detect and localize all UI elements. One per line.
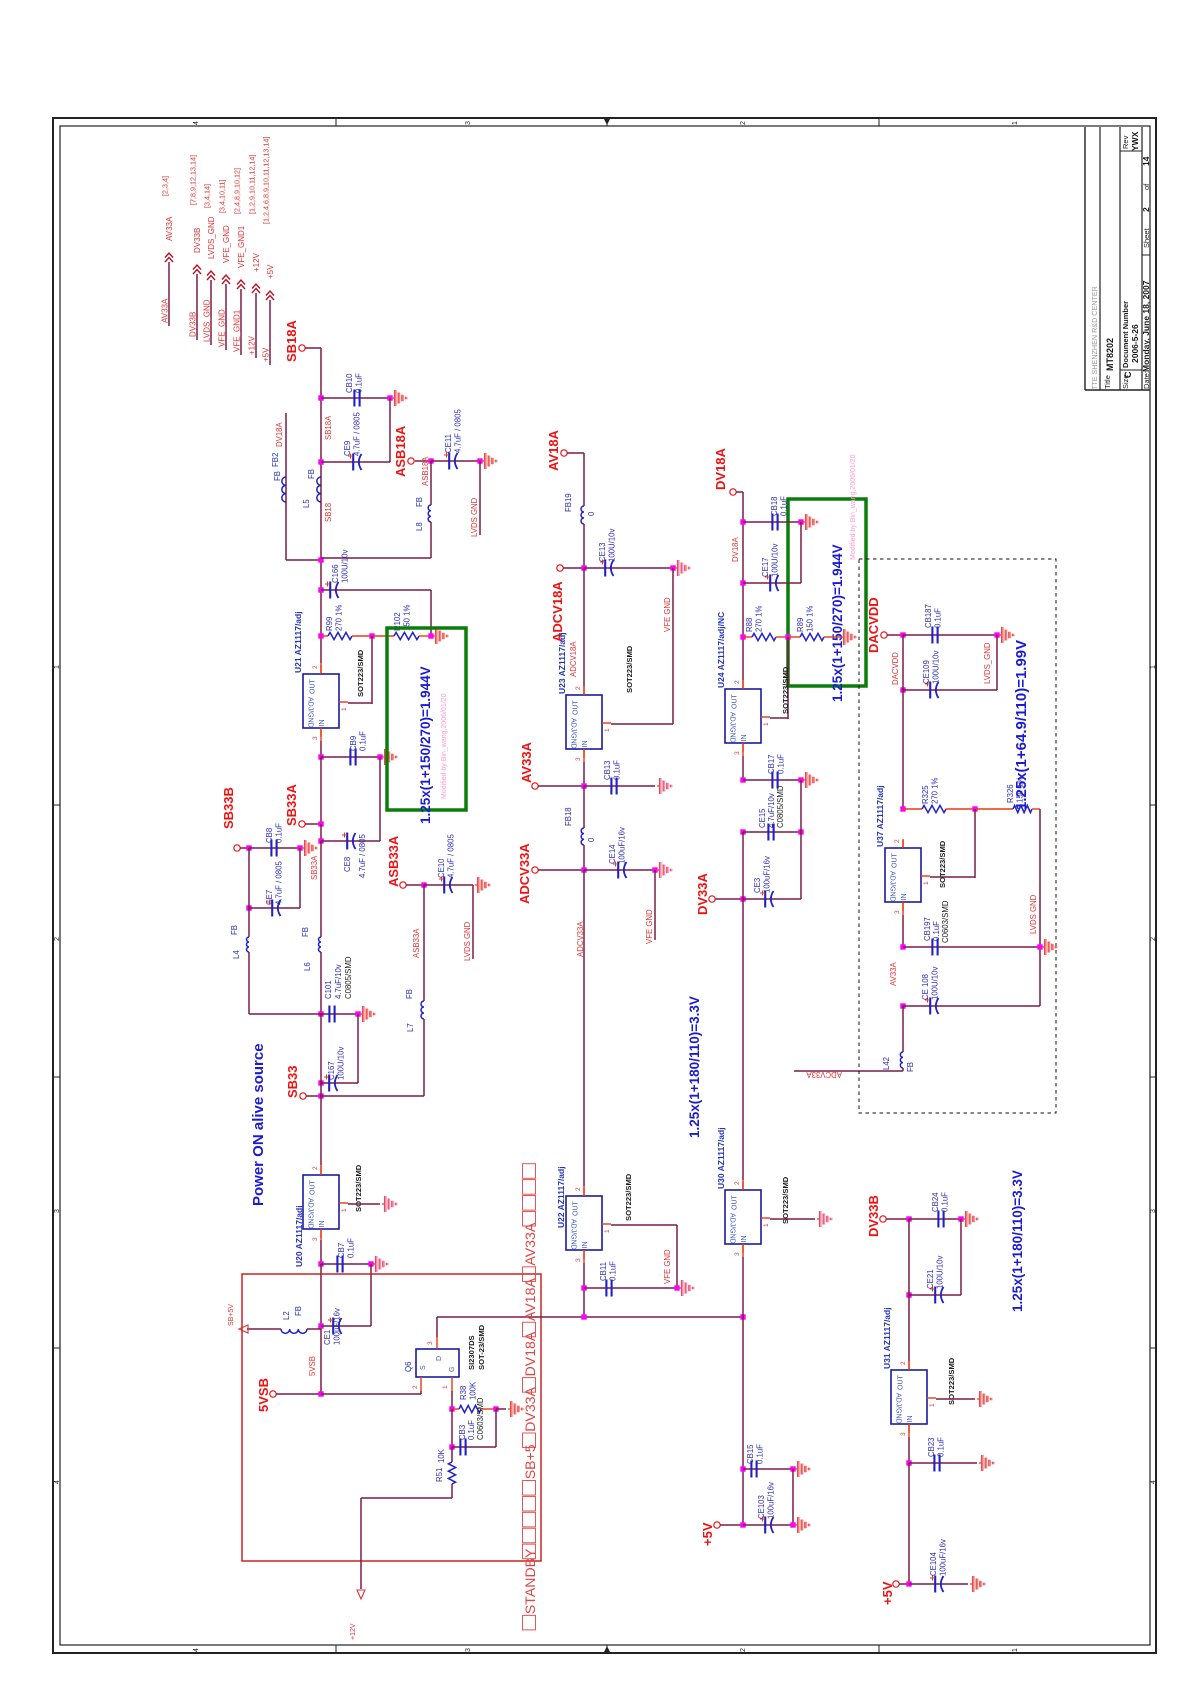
power port SB33B (234, 845, 240, 851)
wire (611, 723, 673, 725)
svg-text:DV18A: DV18A (275, 421, 284, 447)
wire (437, 1316, 743, 1318)
junction (421, 882, 426, 887)
svg-text:4: 4 (193, 121, 200, 125)
power port DV18A (730, 489, 736, 495)
wire (320, 824, 322, 841)
pin 2 OUT of U22 (583, 1187, 585, 1196)
svg-text:3: 3 (900, 1432, 907, 1436)
wire (902, 915, 904, 947)
wire (496, 1408, 506, 1410)
svg-text:TTE SHENZHEN R&D CENTER: TTE SHENZHEN R&D CENTER (1090, 286, 1099, 390)
green highlight box 2 (788, 499, 866, 686)
svg-text:14: 14 (1141, 156, 1151, 166)
wire (415, 460, 431, 462)
junction (900, 687, 905, 692)
capacitor CB23 (933, 1455, 935, 1472)
wire (423, 885, 425, 1001)
svg-text:+5V: +5V (262, 347, 271, 362)
ground (382, 1203, 384, 1205)
wire (321, 1325, 371, 1327)
pin (776, 636, 788, 638)
wire (321, 756, 380, 758)
svg-text:[2,4,8,9,10,12]: [2,4,8,9,10,12] (233, 168, 242, 214)
wire (903, 689, 997, 691)
wire (794, 1070, 903, 1072)
wire (909, 1583, 968, 1585)
wire (249, 1013, 321, 1015)
junction (900, 632, 905, 637)
pin (902, 840, 904, 848)
svg-text:C0603/SMD: C0603/SMD (476, 1397, 485, 1440)
wire (584, 785, 655, 787)
pin (320, 728, 322, 741)
svg-text:SOT223/SMD: SOT223/SMD (625, 645, 634, 693)
junction (740, 580, 745, 585)
wire (583, 568, 585, 686)
wire (743, 1468, 793, 1470)
svg-text:L5: L5 (302, 499, 311, 508)
wire (742, 492, 744, 680)
svg-text:L8: L8 (415, 522, 424, 531)
junction (493, 1406, 498, 1411)
wire (672, 568, 674, 724)
pin (583, 1250, 585, 1263)
ground (382, 756, 384, 758)
resistor R326 (1013, 805, 1032, 812)
svg-text:2: 2 (894, 839, 901, 843)
svg-text:R38: R38 (459, 1386, 468, 1400)
svg-text:2: 2 (740, 121, 747, 125)
svg-text:CB187: CB187 (924, 604, 933, 628)
junction (906, 1292, 911, 1297)
wire (743, 521, 801, 523)
ground (657, 869, 659, 871)
wire (430, 461, 432, 505)
svg-text:1: 1 (763, 722, 770, 726)
junction (798, 829, 803, 834)
wire (420, 1391, 422, 1394)
wire (743, 898, 801, 900)
wire (743, 1524, 793, 1526)
wire (247, 1328, 281, 1330)
wire (583, 870, 585, 1186)
svg-text:FB: FB (415, 497, 424, 507)
wire (305, 347, 321, 349)
svg-text:1.25x(1+180/110)=3.3V: 1.25x(1+180/110)=3.3V (687, 996, 702, 1138)
junction (318, 1011, 323, 1016)
capacitor C101 (328, 1006, 330, 1023)
ground (841, 636, 843, 638)
pin (583, 686, 585, 695)
svg-text:ADJ/GND: ADJ/GND (307, 697, 314, 728)
capacitor CB8 (270, 840, 272, 857)
pin 3 IN of U24 (742, 743, 744, 752)
svg-text:SOT223/SMD: SOT223/SMD (781, 1176, 790, 1224)
junction (355, 1011, 360, 1016)
wire (886, 1218, 909, 1220)
off-page connector +5V (266, 291, 274, 300)
svg-text:SB33B: SB33B (221, 787, 236, 829)
wire (424, 884, 473, 886)
ferrite bead L8 (428, 505, 431, 522)
wire (584, 567, 673, 569)
svg-text:1: 1 (923, 881, 930, 885)
pin (583, 1186, 585, 1196)
pin 1 ADJ/GND of U31 (927, 1397, 936, 1399)
wire (787, 637, 789, 719)
svg-text:1: 1 (604, 1229, 611, 1233)
power arrow SB+5V (239, 1325, 248, 1333)
wire (583, 453, 585, 506)
wire (321, 557, 431, 559)
capacitor CB11 (605, 1280, 607, 1297)
svg-text:CE17: CE17 (761, 557, 770, 577)
svg-text:OUT: OUT (573, 1201, 580, 1217)
resistor R88 (752, 633, 776, 640)
svg-text:3: 3 (575, 1258, 582, 1262)
wire (743, 582, 801, 584)
capacitor CE1 (332, 1318, 334, 1335)
regulator U22 body (566, 1196, 602, 1250)
wire (357, 1014, 359, 1083)
red annotation box around 5VSB circuit (242, 1274, 541, 1561)
svg-text:270 1%: 270 1% (335, 604, 344, 631)
svg-text:[1,2,4,6,8,9,10,11,12,13,14]: [1,2,4,6,8,9,10,11,12,13,14] (262, 137, 271, 224)
svg-text:100K: 100K (469, 1381, 478, 1400)
svg-text:3: 3 (894, 910, 901, 914)
junction (900, 944, 905, 949)
svg-text:4: 4 (193, 1648, 200, 1652)
svg-text:AV33A: AV33A (522, 1222, 538, 1265)
svg-text:VFE_GND: VFE_GND (218, 309, 227, 347)
off-page connector DV33B (193, 265, 201, 274)
svg-text:CB15: CB15 (746, 1444, 755, 1464)
svg-text:CE103: CE103 (757, 1495, 766, 1519)
junction (674, 1285, 679, 1290)
svg-text:SB18A: SB18A (324, 415, 333, 440)
off-page connector AV33A (165, 253, 173, 262)
junction (318, 633, 323, 638)
capacitor CE9 (352, 454, 354, 471)
wire off-page net AV33A (168, 262, 170, 326)
svg-text:DACVDD: DACVDD (866, 597, 881, 653)
wire (800, 832, 802, 899)
ground (803, 521, 805, 523)
svg-text:G: G (449, 1367, 456, 1372)
wire (305, 823, 321, 825)
svg-text:CE8: CE8 (343, 857, 352, 872)
svg-text:DV18A: DV18A (713, 447, 728, 490)
svg-text:3: 3 (1150, 1209, 1157, 1213)
capacitor CE15 (767, 824, 769, 841)
svg-text:VFE GND: VFE GND (645, 909, 654, 944)
junction (581, 1285, 586, 1290)
capacitor CE17 (769, 575, 771, 592)
transistor Q6 body (416, 1349, 459, 1377)
svg-text:100uF/16v: 100uF/16v (618, 827, 627, 864)
junction (740, 1522, 745, 1527)
junction (246, 905, 251, 910)
wire (430, 590, 432, 636)
ferrite bead L6 (319, 937, 321, 952)
wire (451, 1447, 453, 1462)
border zone tick marks top/bottom (335, 118, 337, 126)
junction (740, 777, 745, 782)
pin (975, 808, 1013, 810)
svg-text:SOT223/SMD: SOT223/SMD (938, 840, 947, 888)
wire (930, 876, 975, 878)
ground (679, 1287, 681, 1289)
wire (348, 702, 372, 704)
pin (743, 636, 752, 638)
wire (321, 397, 390, 399)
svg-text:YWX: YWX (1130, 131, 1140, 151)
svg-text:100U/10v: 100U/10v (771, 544, 780, 577)
wire (1039, 809, 1041, 1006)
wire (770, 1218, 815, 1220)
svg-text:C: C (1123, 371, 1133, 378)
svg-text:1.25x(1+150/270)=1.944V: 1.25x(1+150/270)=1.944V (830, 544, 845, 702)
ferrite bead FB2 (282, 477, 286, 502)
power arrow +12V (357, 1590, 365, 1599)
svg-text:OUT: OUT (732, 694, 739, 710)
svg-text:3: 3 (427, 1341, 434, 1345)
wire (908, 1437, 910, 1463)
svg-text:SOT223/SMD: SOT223/SMD (624, 1173, 633, 1221)
svg-text:2: 2 (1150, 937, 1157, 941)
capacitor CE10 (443, 877, 445, 894)
svg-text:FB: FB (307, 469, 316, 479)
svg-text:LVDS GND: LVDS GND (463, 921, 472, 961)
svg-text:CB24: CB24 (931, 1192, 940, 1212)
wire (321, 1013, 358, 1015)
pin 1 ADJ/GND of U24 (761, 716, 770, 718)
junction (581, 867, 586, 872)
wire (423, 1019, 425, 1096)
ground (373, 1263, 375, 1265)
svg-text:2: 2 (54, 937, 61, 941)
svg-text:VFE GND: VFE GND (663, 597, 672, 632)
capacitor CE11 (448, 453, 450, 470)
ground (302, 847, 304, 849)
svg-text:0.1uF: 0.1uF (275, 823, 284, 843)
svg-text:CB7: CB7 (337, 1243, 346, 1258)
power port ADCV33A (532, 867, 538, 873)
junction (581, 1314, 586, 1319)
power port DACVDD (881, 632, 887, 638)
wire (451, 1484, 453, 1498)
junction (369, 633, 374, 638)
wire (320, 1264, 322, 1394)
svg-text:Rev: Rev (1121, 135, 1130, 149)
resistor R38 (459, 1405, 481, 1412)
svg-text:IN: IN (901, 894, 908, 901)
svg-text:DV33B: DV33B (866, 1195, 881, 1237)
resistor R102 (394, 632, 419, 639)
svg-text:DACVDD: DACVDD (891, 652, 900, 685)
wire off-page net VFE_GND1 (240, 289, 242, 355)
svg-text:1: 1 (341, 707, 348, 711)
pin 2 OUT of U21 (320, 665, 322, 674)
svg-text:+12V: +12V (248, 335, 257, 355)
svg-text:OUT: OUT (573, 700, 580, 716)
svg-text:CB13: CB13 (603, 760, 612, 780)
svg-text:OUT: OUT (732, 1195, 739, 1211)
svg-text:CE7: CE7 (265, 890, 274, 905)
pin 3 IN of U37 (902, 902, 904, 911)
wire (654, 870, 656, 940)
wire (321, 1095, 424, 1097)
svg-text:100U/10v: 100U/10v (341, 550, 350, 583)
pin 2 OUT of U31 (908, 1361, 910, 1370)
pin (742, 680, 744, 689)
svg-text:Power ON alive source: Power ON alive source (250, 1043, 267, 1206)
ferrite bead L7 (421, 1001, 424, 1019)
svg-text:4.7uF / 0805: 4.7uF / 0805 (358, 834, 367, 878)
svg-text:FB: FB (301, 927, 310, 937)
svg-text:U22 AZ1117/adj: U22 AZ1117/adj (556, 1166, 566, 1228)
svg-text:3: 3 (312, 1237, 319, 1241)
pin 3 IN of U23 (583, 749, 585, 758)
svg-text:ADJ/GND: ADJ/GND (729, 1213, 736, 1244)
wire (249, 907, 300, 909)
wire (792, 1469, 794, 1525)
svg-text:SB33A: SB33A (284, 783, 299, 826)
junction (428, 633, 433, 638)
svg-text:ADJ/GND: ADJ/GND (895, 1393, 902, 1424)
junction (449, 1406, 454, 1411)
svg-text:IN: IN (582, 1242, 589, 1249)
pin 3 IN of U30 (742, 1244, 744, 1253)
svg-text:L42: L42 (882, 1057, 891, 1070)
svg-text:4: 4 (54, 1480, 61, 1484)
svg-text:5VSB: 5VSB (256, 1378, 271, 1412)
wire (472, 885, 474, 959)
svg-text:CE11: CE11 (444, 434, 453, 453)
pin 3 IN of U20 (320, 1229, 322, 1238)
capacitor CB17 (771, 772, 773, 789)
pin 1 ADJ/GND of U21 (339, 701, 348, 703)
wire (583, 524, 585, 568)
svg-text:R99: R99 (325, 617, 334, 631)
svg-text:1: 1 (1150, 665, 1157, 669)
junction (318, 1323, 323, 1328)
junction (581, 565, 586, 570)
svg-text:ADJ/GND: ADJ/GND (570, 1219, 577, 1250)
svg-text:3: 3 (575, 757, 582, 761)
svg-text:Modified by Bin_wang,2006/01/2: Modified by Bin_wang,2006/01/20 (850, 454, 857, 560)
pin 2 OUT of U24 (742, 680, 744, 689)
svg-text:[2,3,4]: [2,3,4] (161, 176, 170, 196)
wire (742, 1257, 744, 1317)
wire (320, 952, 322, 1014)
svg-text:100U/10v: 100U/10v (608, 529, 617, 562)
svg-text:2: 2 (900, 1361, 907, 1365)
wire (960, 1219, 962, 1295)
svg-text:[7,8,9,12,13,14]: [7,8,9,12,13,14] (189, 155, 198, 205)
junction (994, 632, 999, 637)
svg-text:100uF/16v: 100uF/16v (767, 1482, 776, 1519)
svg-text:100U/10v: 100U/10v (932, 651, 941, 684)
capacitor CE8 (346, 833, 348, 850)
svg-text:Q6: Q6 (404, 1362, 413, 1372)
wire (406, 884, 424, 886)
svg-text:R325: R325 (921, 785, 930, 804)
svg-text:R51: R51 (435, 1468, 444, 1482)
wire (538, 869, 584, 871)
power port ASB18A (408, 458, 414, 464)
svg-text:4.7uF / 0805: 4.7uF / 0805 (447, 834, 456, 878)
svg-text:Document Number: Document Number (1121, 301, 1130, 368)
resistor R325 (922, 805, 946, 812)
wire (285, 413, 287, 560)
junction (318, 838, 323, 843)
wire (743, 779, 801, 781)
wire (583, 786, 585, 828)
svg-text:L7: L7 (406, 1023, 415, 1032)
ground (817, 1218, 819, 1220)
off-page connector VFE_GND1 (237, 280, 245, 289)
pin (451, 1377, 453, 1391)
wire (742, 756, 744, 780)
pin (903, 808, 922, 810)
ground (360, 1013, 362, 1015)
pin 3 IN of U31 (908, 1424, 910, 1433)
wire (902, 1068, 904, 1071)
svg-text:270 1%: 270 1% (755, 605, 764, 632)
wire (563, 567, 584, 569)
ferrite bead L4 (247, 937, 250, 952)
capacitor CE3 (764, 891, 766, 908)
svg-text:FB18: FB18 (564, 807, 573, 826)
svg-text:CB23: CB23 (927, 1437, 936, 1457)
junction (318, 1391, 323, 1396)
wire off-page net +5V (269, 300, 271, 365)
junction (318, 1080, 323, 1085)
wire (431, 460, 480, 462)
regulator U21 body (303, 674, 339, 728)
capacitor C166 (329, 582, 331, 599)
svg-text:CE21: CE21 (926, 1269, 935, 1289)
svg-text:DV18A: DV18A (522, 1331, 538, 1376)
title block frame lines (1084, 127, 1086, 390)
junction (387, 395, 392, 400)
svg-text:5VSB: 5VSB (308, 1356, 317, 1376)
wire (320, 1014, 322, 1096)
power port +5V (right) (893, 1581, 899, 1587)
regulator U23 body (566, 695, 602, 749)
svg-text:4: 4 (1150, 1480, 1157, 1484)
junction (740, 896, 745, 901)
svg-text:U23 AZ1117/adj: U23 AZ1117/adj (557, 632, 567, 694)
ferrite bead FB18 (581, 828, 584, 845)
svg-text:0.1uF: 0.1uF (932, 921, 941, 941)
svg-text:R88: R88 (745, 618, 754, 632)
capacitor CE14 (617, 862, 619, 879)
svg-text:FB2: FB2 (271, 453, 280, 467)
svg-text:U31 AZ1117/adj: U31 AZ1117/adj (882, 1307, 892, 1369)
pin (908, 1361, 910, 1370)
svg-text:10K: 10K (437, 1448, 446, 1463)
svg-text:FB: FB (906, 1062, 915, 1072)
pin (452, 1408, 459, 1410)
ground (970, 1583, 972, 1585)
capacitor CB24 (937, 1211, 939, 1228)
wire (909, 1294, 961, 1296)
svg-text:2: 2 (312, 1166, 319, 1170)
svg-text:CE1: CE1 (323, 1330, 332, 1345)
